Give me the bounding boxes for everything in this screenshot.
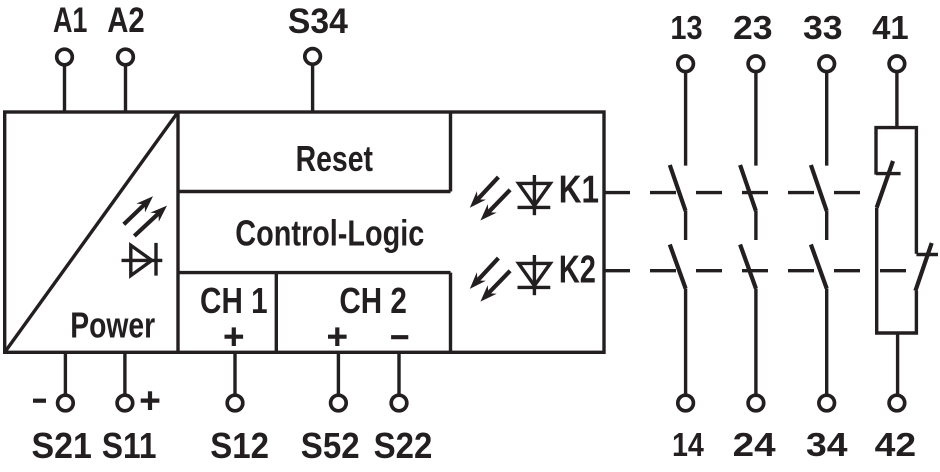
power LED emission arrow 2 bbox=[134, 206, 167, 236]
NC contact 41-42 stop bar (K1) bbox=[876, 172, 901, 175]
svg-text:42: 42 bbox=[875, 426, 917, 463]
K1 arrow 2 bbox=[480, 190, 510, 221]
wire A2 to box bbox=[124, 65, 127, 112]
terminal 24 bbox=[748, 395, 764, 411]
plus sign CH2 bbox=[328, 327, 347, 346]
wire 23-24 bottom bbox=[754, 289, 757, 396]
NC contact 41-42 blade (K1) bbox=[877, 161, 893, 208]
svg-text:A1: A1 bbox=[53, 1, 88, 40]
svg-text:13: 13 bbox=[670, 9, 702, 46]
svg-text:Power: Power bbox=[70, 305, 155, 346]
wire 23 down bbox=[754, 72, 757, 166]
terminal 34 bbox=[819, 395, 835, 411]
terminal S21 bbox=[58, 395, 74, 411]
svg-text:A2: A2 bbox=[107, 1, 145, 40]
power section right border bbox=[176, 112, 179, 352]
K2 arrow 2 bbox=[480, 271, 510, 302]
contact 13-14 lower blade (K2) bbox=[670, 245, 686, 289]
wire 13 down bbox=[684, 72, 687, 166]
relay K1 coil LED symbol bbox=[518, 175, 551, 215]
NC contact 41-42 blade (K2) bbox=[915, 243, 931, 291]
wire A1 to box bbox=[63, 65, 66, 112]
svg-text:CH 2: CH 2 bbox=[339, 280, 407, 321]
wire block to 42 bbox=[896, 333, 899, 395]
wire 23-24 mid bbox=[754, 211, 757, 240]
dashed link K2 row bbox=[604, 269, 912, 272]
relay K2 coil LED symbol bbox=[518, 255, 551, 295]
svg-text:S12: S12 bbox=[210, 425, 269, 466]
wire 13-14 mid bbox=[684, 211, 687, 240]
terminal S12 bbox=[227, 395, 243, 411]
wire 13-14 bottom bbox=[684, 289, 687, 396]
plus sign at S11 bbox=[141, 391, 160, 410]
svg-text:Control-Logic: Control-Logic bbox=[235, 212, 424, 253]
K1 arrow 1 bbox=[470, 177, 499, 208]
wire 33 down bbox=[825, 72, 828, 166]
main device box bbox=[5, 112, 604, 352]
contact 33-34 lower blade (K2) bbox=[811, 245, 827, 289]
NC contact block 41-42 outline bbox=[876, 128, 916, 333]
svg-text:CH 1: CH 1 bbox=[200, 280, 268, 321]
terminal 23 bbox=[748, 56, 764, 72]
K2 arrow 1 bbox=[470, 258, 499, 289]
Reset box bottom border bbox=[178, 190, 451, 193]
wire 33-34 bottom bbox=[825, 289, 828, 396]
dashed link K1 row bbox=[604, 191, 872, 194]
Reset box right border bbox=[449, 112, 452, 192]
terminal S52 bbox=[331, 395, 347, 411]
power section diagonal bbox=[5, 112, 178, 352]
NC contact 41-42 stop bar (K2) bbox=[916, 253, 938, 256]
plus sign CH1 bbox=[225, 327, 244, 346]
wire box to S21 bbox=[64, 352, 67, 395]
svg-text:24: 24 bbox=[733, 426, 777, 463]
CH1/CH2 divider bbox=[275, 273, 278, 353]
wire box to S12 bbox=[233, 352, 236, 395]
svg-text:S11: S11 bbox=[102, 425, 157, 466]
svg-text:K2: K2 bbox=[559, 249, 596, 292]
terminal A1 bbox=[57, 49, 73, 65]
wire box to S22 bbox=[397, 352, 400, 395]
power LED emission arrow 1 bbox=[124, 196, 153, 224]
terminal 42 bbox=[889, 395, 905, 411]
contact 13-14 upper blade (K1) bbox=[670, 165, 686, 211]
wire 33-34 mid bbox=[825, 211, 828, 240]
power LED diode D1 bbox=[122, 243, 163, 276]
terminal 33 bbox=[819, 56, 835, 72]
svg-text:14: 14 bbox=[672, 426, 704, 463]
svg-text:S21: S21 bbox=[32, 425, 92, 466]
terminal 41 bbox=[889, 56, 905, 72]
terminal S11 bbox=[117, 395, 133, 411]
svg-text:41: 41 bbox=[872, 9, 909, 46]
wire box to S11 bbox=[123, 352, 126, 395]
contact 23-24 upper blade (K1) bbox=[740, 165, 756, 211]
CH2 right border bbox=[449, 273, 452, 353]
svg-text:33: 33 bbox=[803, 9, 843, 46]
wire 41 down bbox=[895, 72, 898, 128]
CH boxes top border bbox=[178, 271, 451, 274]
svg-text:S52: S52 bbox=[301, 425, 360, 466]
terminal A2 bbox=[118, 49, 134, 65]
terminal 13 bbox=[678, 56, 694, 72]
minus sign CH2 bbox=[391, 335, 408, 339]
minus sign at S21 bbox=[33, 399, 46, 403]
svg-text:34: 34 bbox=[806, 426, 848, 463]
terminal 14 bbox=[678, 395, 694, 411]
svg-text:K1: K1 bbox=[559, 169, 599, 212]
contact 33-34 upper blade (K1) bbox=[811, 165, 827, 211]
wire box to S52 bbox=[337, 352, 340, 395]
svg-text:S22: S22 bbox=[374, 425, 433, 466]
contact 23-24 lower blade (K2) bbox=[740, 245, 756, 289]
svg-text:23: 23 bbox=[733, 9, 773, 46]
wire S34 to box bbox=[311, 64, 314, 112]
terminal S22 bbox=[391, 395, 407, 411]
svg-text:Reset: Reset bbox=[296, 138, 373, 179]
terminal S34 bbox=[305, 49, 321, 65]
svg-text:S34: S34 bbox=[288, 2, 349, 41]
